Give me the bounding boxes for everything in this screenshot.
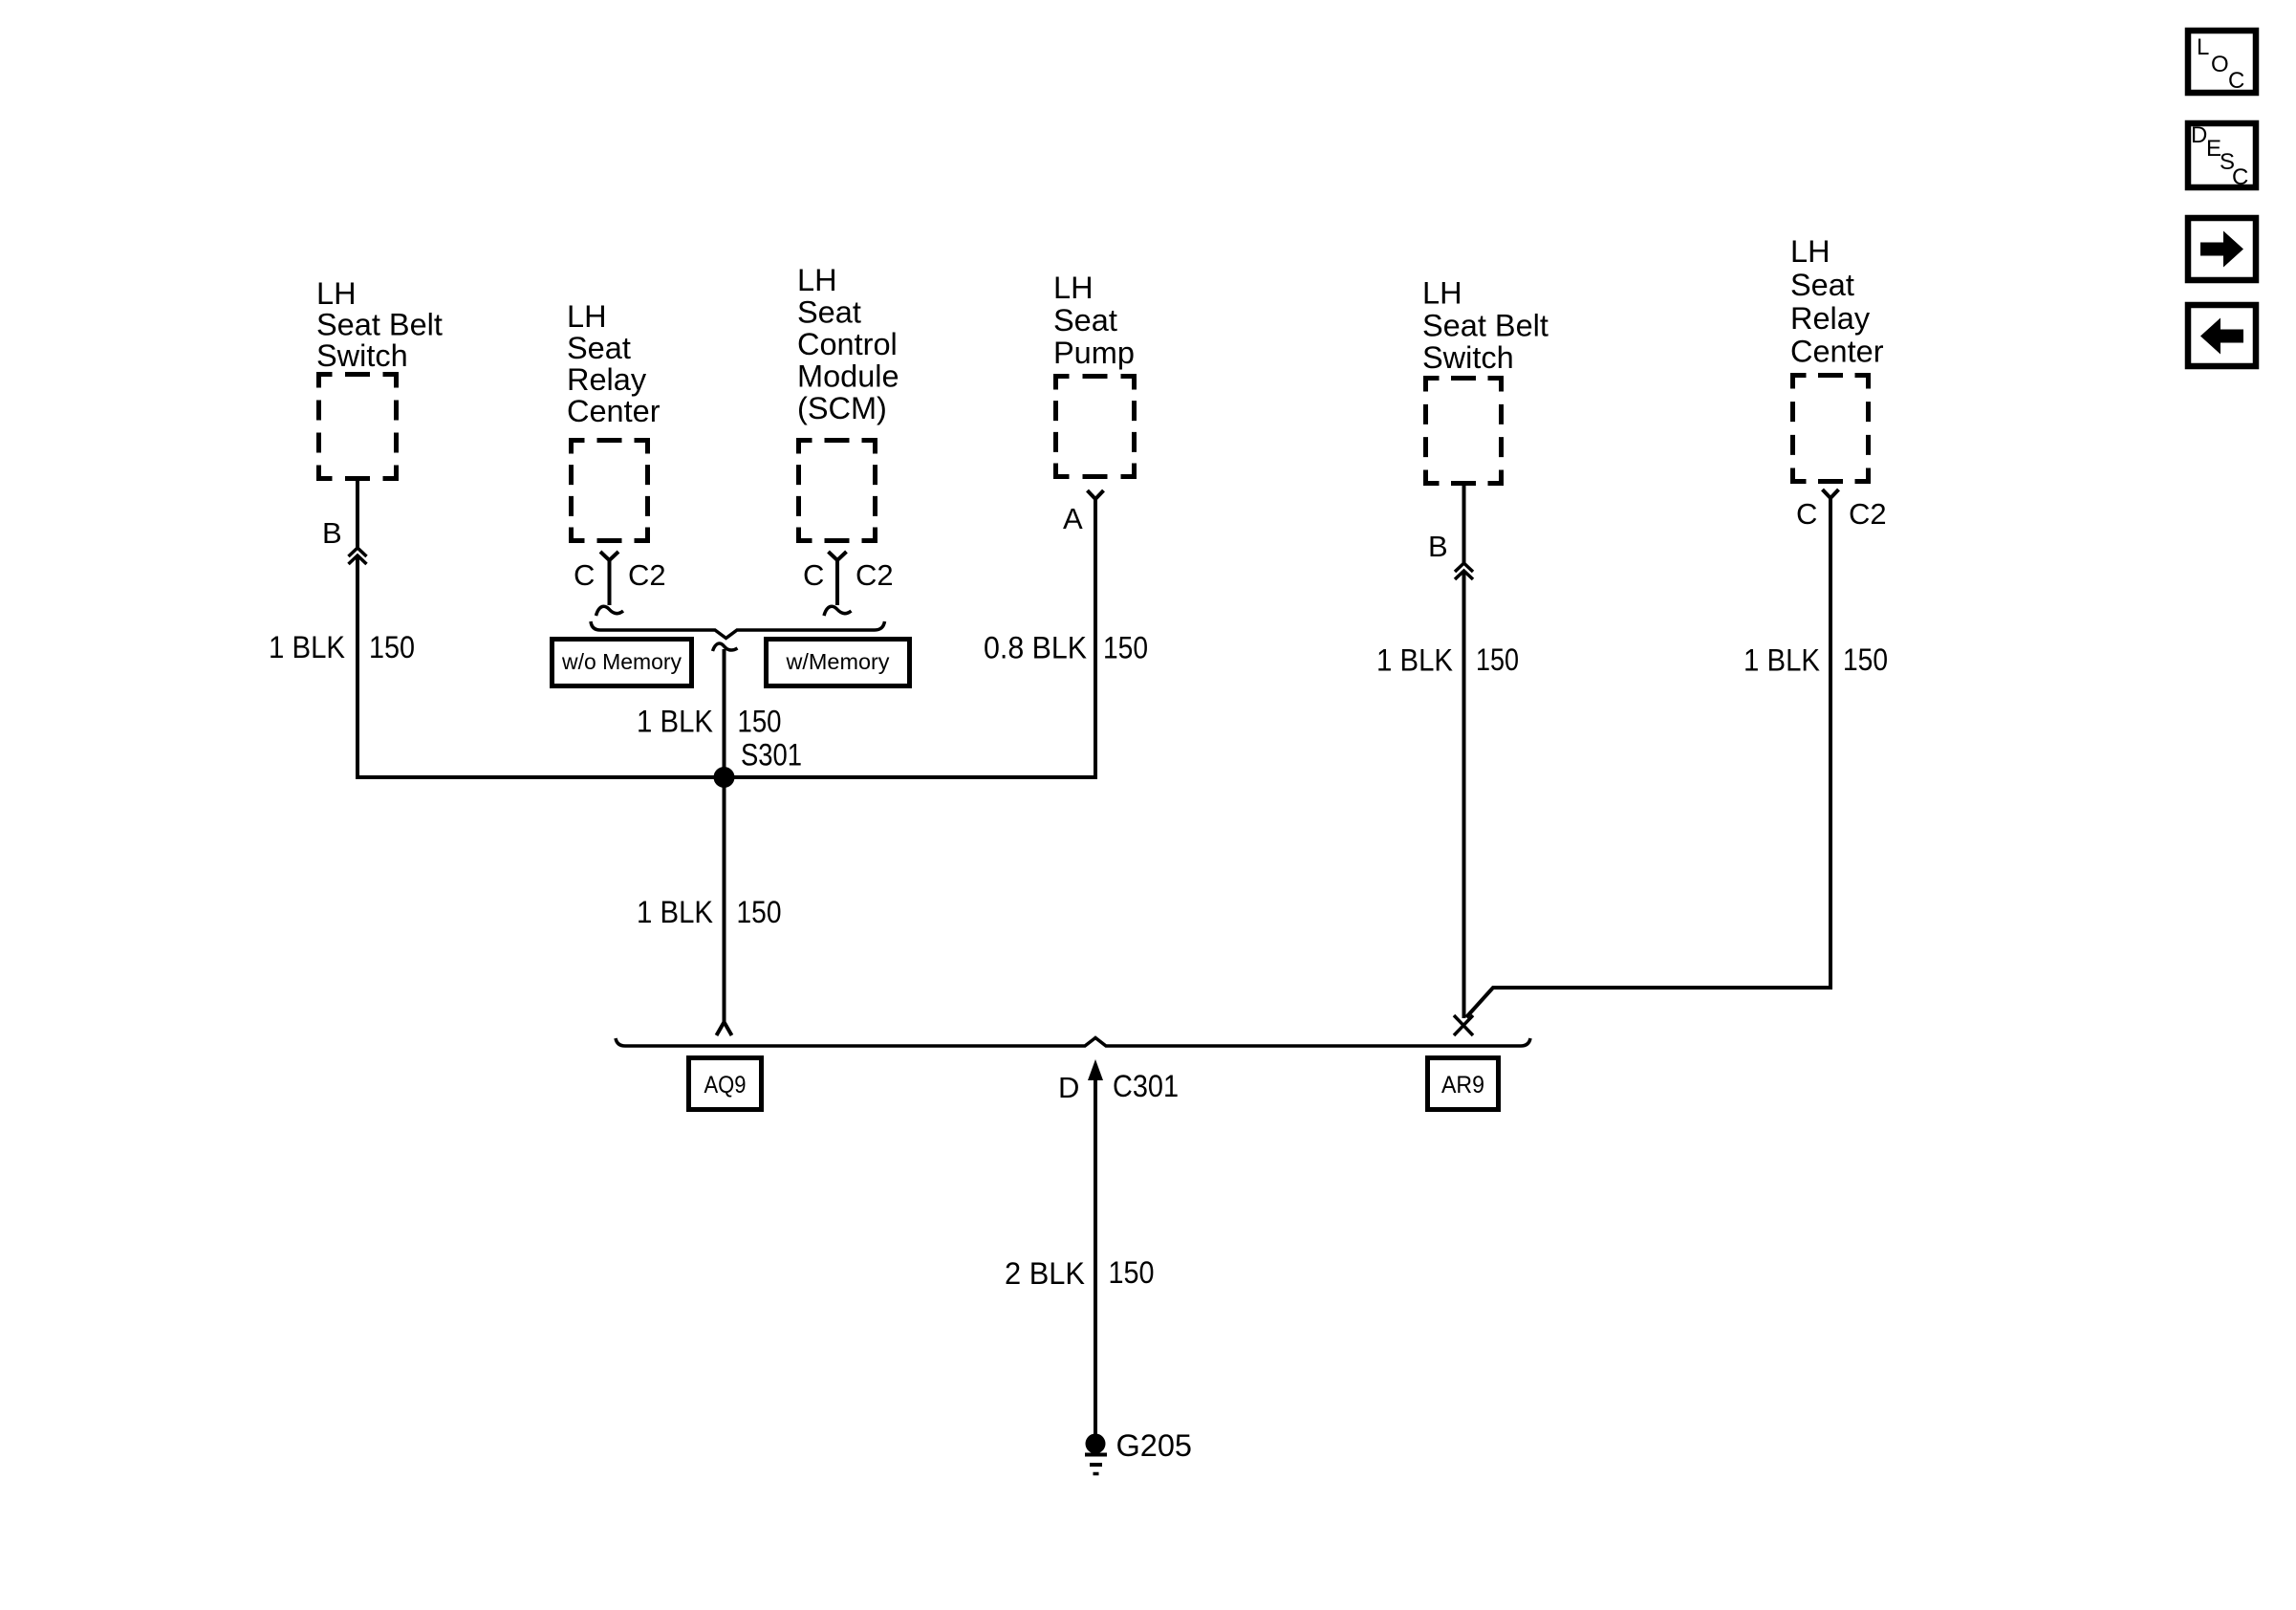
pin B label (left switch) bbox=[322, 516, 342, 550]
connector box: LH Seat Pump bbox=[1056, 377, 1135, 477]
svg-text:A: A bbox=[1063, 502, 1083, 535]
svg-text:B: B bbox=[322, 516, 342, 550]
pin A label (seat pump) bbox=[1063, 502, 1083, 535]
button next page (right arrow) bbox=[2188, 218, 2256, 280]
svg-text:Switch: Switch bbox=[316, 338, 408, 373]
wire: left switch pin B down to splice S301 bus bbox=[356, 481, 359, 777]
harness code box AR9 bbox=[1428, 1058, 1499, 1110]
connector box: LH Seat Belt Switch (left) bbox=[319, 375, 397, 479]
pin labels C / C2 (right relay center) bbox=[1796, 497, 1887, 531]
label C301 bbox=[1113, 1069, 1179, 1103]
svg-text:O: O bbox=[2211, 52, 2229, 77]
svg-text:1 BLK: 1 BLK bbox=[1376, 643, 1453, 678]
svg-text:Center: Center bbox=[1790, 335, 1884, 369]
svg-text:D: D bbox=[2191, 122, 2207, 148]
svg-text:Center: Center bbox=[567, 394, 661, 428]
splice S301 junction dot bbox=[714, 767, 735, 788]
brace grouping C2 connectors (w/o Memory vs w/Memory options) bbox=[591, 621, 885, 639]
svg-text:150: 150 bbox=[1109, 1255, 1155, 1290]
button previous page (left arrow) bbox=[2188, 305, 2256, 366]
svg-text:Switch: Switch bbox=[1422, 340, 1514, 375]
svg-text:B: B bbox=[1428, 530, 1448, 563]
svg-text:AR9: AR9 bbox=[1441, 1072, 1484, 1099]
option box: w/o Memory bbox=[552, 640, 692, 686]
svg-text:0.8 BLK: 0.8 BLK bbox=[984, 631, 1087, 665]
svg-text:LH: LH bbox=[1790, 234, 1830, 269]
svg-text:LH: LH bbox=[1422, 276, 1462, 311]
svg-text:LH: LH bbox=[567, 299, 607, 334]
svg-text:Seat Belt: Seat Belt bbox=[1422, 309, 1549, 343]
harness code box AQ9 bbox=[689, 1058, 762, 1110]
svg-text:Pump: Pump bbox=[1053, 336, 1135, 370]
svg-text:w/Memory: w/Memory bbox=[785, 649, 890, 674]
svg-text:Seat: Seat bbox=[797, 295, 861, 330]
svg-text:S301: S301 bbox=[741, 738, 802, 772]
svg-text:150: 150 bbox=[737, 895, 782, 929]
pin A fork (seat pump) bbox=[1088, 490, 1104, 499]
wire: splice S301 down to harness brace (fork end) bbox=[717, 779, 732, 1035]
svg-text:(SCM): (SCM) bbox=[797, 391, 887, 425]
svg-text:1 BLK: 1 BLK bbox=[269, 630, 345, 664]
svg-text:C: C bbox=[1796, 497, 1817, 531]
svg-text:LH: LH bbox=[797, 263, 837, 297]
connector C2 fork (left relay center) bbox=[596, 552, 624, 616]
label: LH Seat Control Module (SCM) bbox=[797, 263, 899, 425]
X fork joint at harness brace (right) bbox=[1454, 1015, 1473, 1035]
label: LH Seat Belt Switch (left) bbox=[316, 276, 443, 373]
wire label: 1 BLK 150 (left switch) bbox=[269, 630, 415, 664]
svg-text:150: 150 bbox=[1103, 631, 1148, 665]
svg-text:150: 150 bbox=[738, 705, 782, 739]
svg-text:C: C bbox=[2232, 164, 2248, 190]
label: LH Seat Relay Center (left) bbox=[567, 299, 661, 428]
connector C301 arrow (pin D) bbox=[1088, 1059, 1103, 1440]
svg-text:L: L bbox=[2197, 34, 2209, 60]
splice S301 label bbox=[741, 738, 802, 772]
svg-text:150: 150 bbox=[1843, 642, 1888, 677]
wire: pump pin A down to bus bbox=[1094, 499, 1097, 777]
svg-text:C: C bbox=[2228, 68, 2244, 94]
pin B label (right switch) bbox=[1428, 530, 1448, 563]
svg-text:Module: Module bbox=[797, 359, 899, 394]
svg-text:Seat: Seat bbox=[1790, 268, 1854, 302]
svg-text:Seat: Seat bbox=[567, 331, 631, 365]
svg-text:D: D bbox=[1058, 1071, 1079, 1104]
svg-text:C2: C2 bbox=[628, 558, 666, 592]
wire label: 0.8 BLK 150 (pump) bbox=[984, 631, 1148, 665]
wire label: 1 BLK 150 (relay/SCM branch) bbox=[637, 705, 782, 739]
svg-text:LH: LH bbox=[1053, 271, 1094, 305]
svg-text:C: C bbox=[574, 558, 595, 592]
connector box: LH Seat Belt Switch (right) bbox=[1426, 379, 1502, 484]
wire label: 1 BLK 150 (right switch) bbox=[1376, 642, 1519, 678]
connector box: LH Seat Control Module bbox=[799, 441, 876, 541]
connector box: LH Seat Relay Center (left) bbox=[572, 441, 648, 541]
svg-text:1 BLK: 1 BLK bbox=[637, 895, 713, 929]
in-line connector chevrons (right switch wire) bbox=[1455, 563, 1473, 579]
wire: right relay center down and left to harness brace bbox=[1466, 498, 1832, 1017]
svg-text:w/o Memory: w/o Memory bbox=[561, 649, 682, 674]
svg-text:Seat: Seat bbox=[1053, 303, 1117, 337]
connector C2 fork (right relay center) bbox=[1823, 490, 1839, 498]
svg-text:1 BLK: 1 BLK bbox=[1744, 643, 1820, 678]
wire label: 2 BLK 150 (ground lead) bbox=[1005, 1255, 1155, 1291]
svg-text:Relay: Relay bbox=[1790, 301, 1871, 336]
svg-text:2 BLK: 2 BLK bbox=[1005, 1256, 1085, 1291]
pin D label (C301) bbox=[1058, 1071, 1079, 1104]
connector box: LH Seat Relay Center (right) bbox=[1793, 376, 1869, 482]
wire: horizontal ground bus through splice S301 bbox=[356, 775, 1097, 779]
option box: w/Memory bbox=[767, 640, 910, 686]
connector C2 fork (SCM) bbox=[824, 552, 852, 616]
svg-text:G205: G205 bbox=[1116, 1428, 1193, 1463]
wire label: 1 BLK 150 (splice to C301) bbox=[637, 895, 782, 929]
button DESC bbox=[2188, 122, 2256, 190]
svg-text:150: 150 bbox=[1476, 642, 1519, 677]
label: LH Seat Belt Switch (right) bbox=[1422, 276, 1549, 376]
svg-text:Seat Belt: Seat Belt bbox=[316, 308, 443, 342]
pin labels C / C2 (SCM) bbox=[803, 558, 894, 592]
svg-text:C2: C2 bbox=[856, 558, 894, 592]
wire: brace output squiggle down to splice S301 bbox=[713, 643, 738, 777]
svg-text:C301: C301 bbox=[1113, 1069, 1179, 1103]
svg-text:C: C bbox=[803, 558, 824, 592]
svg-text:Relay: Relay bbox=[567, 362, 647, 397]
svg-text:C2: C2 bbox=[1849, 497, 1887, 531]
button LOC bbox=[2188, 31, 2256, 94]
label G205 bbox=[1116, 1428, 1193, 1463]
in-line connector chevrons (left switch wire) bbox=[349, 548, 367, 564]
label: LH Seat Relay Center (right) bbox=[1790, 234, 1884, 369]
wire: right switch pin B down to harness brace bbox=[1462, 486, 1466, 1018]
svg-text:AQ9: AQ9 bbox=[704, 1072, 747, 1099]
svg-text:Control: Control bbox=[797, 327, 898, 361]
svg-text:LH: LH bbox=[316, 276, 357, 311]
svg-text:150: 150 bbox=[369, 630, 415, 664]
pin labels C / C2 (left relay center) bbox=[574, 558, 666, 592]
label: LH Seat Pump bbox=[1053, 271, 1135, 370]
harness brace above connector C301 bbox=[616, 1038, 1530, 1047]
ground G205 symbol bbox=[1085, 1434, 1107, 1474]
wire label: 1 BLK 150 (right relay center) bbox=[1744, 642, 1888, 678]
svg-text:1 BLK: 1 BLK bbox=[637, 705, 713, 739]
